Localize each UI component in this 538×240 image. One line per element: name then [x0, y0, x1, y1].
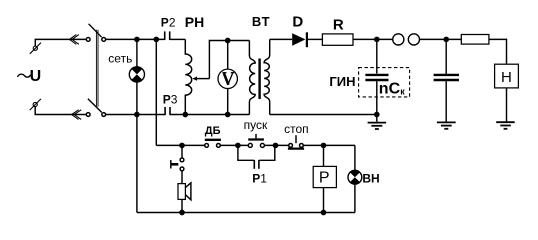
wire control rail	[156, 144, 205, 146]
node ground rail	[375, 112, 379, 116]
node P1 left	[236, 143, 240, 147]
wire R to spark gap	[353, 38, 393, 40]
transformer BT primary	[249, 41, 255, 115]
transformer BT secondary	[264, 39, 270, 114]
diode D	[292, 32, 307, 47]
ground G1	[368, 123, 387, 129]
terminal X1 top input socket	[30, 43, 41, 54]
svg-text:nC: nC	[379, 81, 401, 98]
svg-text:R: R	[333, 16, 344, 33]
switch S1 top pole	[86, 24, 105, 42]
svg-text:Н: Н	[501, 69, 512, 86]
wire P3 to BT primary bottom	[170, 114, 249, 116]
ground G2	[437, 122, 456, 128]
contact P3	[165, 107, 170, 115]
svg-text:сеть: сеть	[108, 51, 132, 65]
dashed box ГИН	[359, 68, 410, 97]
contact P2	[165, 31, 170, 40]
resistor R	[322, 34, 353, 45]
wire H to ground	[506, 88, 508, 122]
connector chevron bottom	[72, 110, 82, 120]
svg-text:к: к	[400, 87, 405, 97]
node P1 right	[273, 143, 277, 147]
wire diode to R	[308, 38, 322, 40]
label ~U	[17, 68, 41, 85]
wire spark gap to C2 node	[420, 38, 462, 40]
wire R2 to H	[489, 39, 507, 64]
svg-text:Р2: Р2	[161, 15, 176, 29]
node P coil top	[321, 143, 325, 147]
node lamp tap	[135, 37, 139, 41]
node V top	[226, 38, 230, 42]
wire стоп to BH branch	[303, 144, 355, 146]
switch mechanical link	[96, 30, 98, 107]
button стоп	[288, 135, 304, 148]
svg-text:ВТ: ВТ	[252, 14, 270, 29]
node buzzer bottom	[180, 210, 184, 214]
node V bottom	[226, 112, 230, 116]
svg-text:D: D	[292, 14, 303, 31]
svg-text:Р1: Р1	[252, 171, 267, 185]
PH tap arrow	[192, 41, 249, 81]
lamp сеть	[129, 41, 144, 82]
switch S1 bottom pole	[86, 99, 105, 117]
wire secondary top to diode	[270, 38, 293, 40]
spark gap FV	[393, 34, 420, 45]
node P coil bottom	[321, 210, 325, 214]
node ГИН top	[375, 37, 379, 41]
wire top rail to P2	[106, 38, 165, 40]
capacitor C2	[434, 39, 459, 121]
svg-text:стоп: стоп	[284, 122, 309, 136]
wire lamp down to control return	[136, 82, 138, 213]
button пуск	[248, 134, 264, 148]
wire control drop	[155, 41, 157, 145]
connector chevron top	[69, 35, 79, 45]
wire from X1 to top rail	[35, 39, 86, 46]
resistor R2	[461, 35, 489, 45]
node PH bottom	[183, 112, 187, 116]
node buzzer tap	[180, 143, 184, 147]
wire bottom rail to P3	[106, 114, 166, 116]
buzzer speaker	[178, 171, 191, 213]
relay P coil	[313, 145, 336, 212]
wire P2 to PH	[170, 38, 186, 40]
wire control bottom rail	[137, 212, 355, 214]
svg-text:ГИН: ГИН	[329, 74, 355, 89]
terminal X2 bottom input socket	[30, 99, 41, 110]
svg-text:ВН: ВН	[362, 171, 379, 185]
svg-text:Р3: Р3	[163, 93, 178, 107]
node control tap	[154, 37, 158, 41]
svg-text:РН: РН	[185, 14, 204, 30]
voltmeter V	[218, 41, 237, 115]
contact ДБ	[205, 140, 221, 148]
load H box	[495, 64, 519, 88]
contact P1 branch	[238, 145, 275, 168]
svg-text:U: U	[30, 68, 42, 85]
lamp BH branch	[348, 145, 362, 212]
wire from X2 to bottom rail	[35, 107, 86, 115]
svg-text:Р: Р	[319, 169, 330, 186]
wire secondary bottom rail	[270, 114, 377, 116]
node C2 top	[444, 37, 448, 41]
transformer BT core	[258, 59, 260, 100]
wire ДБ to пуск	[220, 144, 248, 146]
capacitor C1	[365, 39, 388, 121]
svg-text:ДБ: ДБ	[205, 125, 221, 137]
contact blocking buzzer	[171, 145, 184, 170]
autotransformer PH coil	[185, 39, 191, 114]
node lamp return	[135, 112, 139, 116]
ground G3	[496, 122, 515, 129]
wire пуск to стоп	[264, 144, 288, 146]
svg-text:пуск: пуск	[244, 118, 268, 132]
